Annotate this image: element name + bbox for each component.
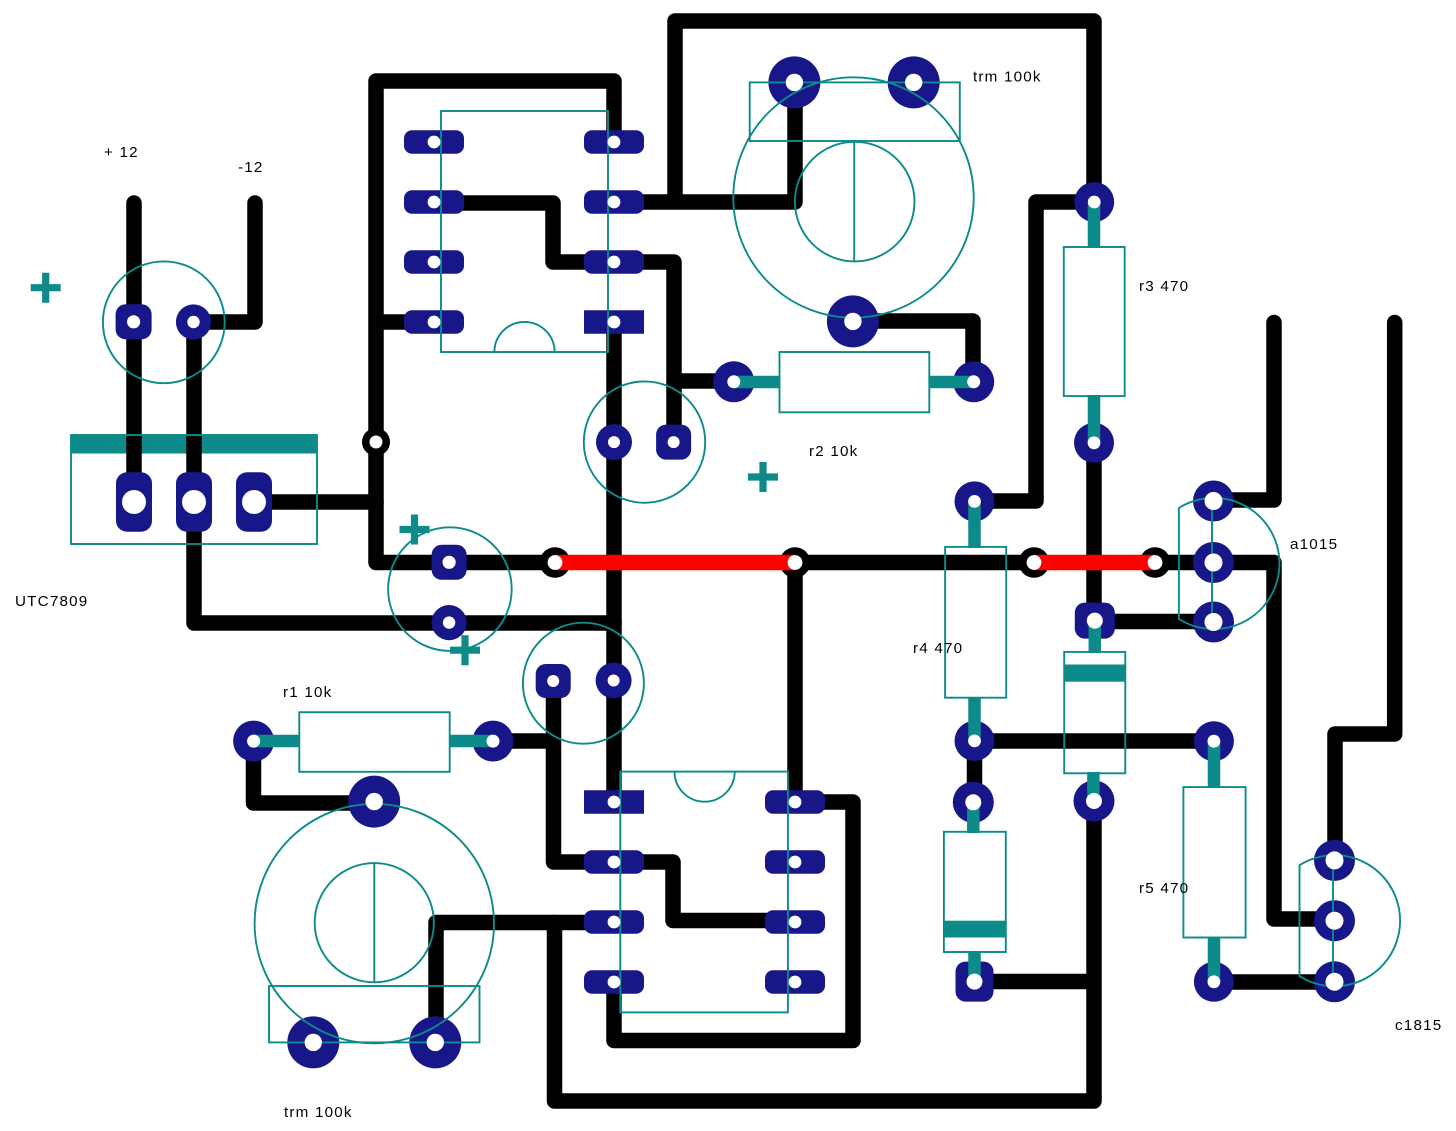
IC U2 pad pin 6 (765, 910, 825, 934)
wire IC U1 pin 7 to trimmer trm1 pad A (614, 82, 795, 202)
voltage regulator U3 UTC7809 tab bar (71, 435, 317, 454)
IC U1 notch arc (494, 322, 554, 352)
wire node A loop IC U1 pin 8 to red junction A (376, 81, 614, 563)
wire +12 terminal to U3 pin1 (126, 203, 142, 502)
IC U1 pad pin 2 (584, 190, 644, 214)
trimmer trm2 body rectangle (269, 986, 480, 1042)
wire cap C1 negative pad to U3 pin2 (186, 322, 202, 502)
pad drill holes (370, 436, 383, 449)
transistor c1815 base pad (1314, 900, 1355, 941)
diode D2 leads (1089, 621, 1102, 653)
voltage regulator U3 pads pins 1 2 3 (116, 472, 152, 532)
wire r3 top pad to r4 top pad (975, 202, 1095, 501)
via junction red segment 1 right (780, 547, 811, 578)
transistor Q2 base pad square (536, 664, 571, 698)
resistor r2 left pad (713, 361, 754, 402)
wire r4 bottom pad to r5 top pad (975, 733, 1215, 749)
IC U2 pad pin 2 (584, 850, 644, 874)
diode D1 anode pad square (956, 962, 994, 1002)
capacitor C2 positive pad (432, 545, 467, 580)
r5 top pad (1194, 721, 1234, 761)
resistor r3 leads (1088, 202, 1101, 248)
trimmer trm1 wiper pad (827, 295, 879, 347)
via junction red segment 2 left (1019, 547, 1050, 578)
diode D2 cathode stripe (1064, 665, 1125, 682)
capacitor C1 plus mark (31, 273, 61, 303)
capacitor C2 outline circle (388, 527, 512, 651)
via junction red segment 2 right (1140, 547, 1171, 578)
wire top right rail to transistor a1015 emitter (1214, 323, 1274, 501)
resistor r5 body outline (1183, 787, 1245, 937)
IC U2 pad pin 1 square pin1 marker (584, 790, 644, 814)
resistor r4 top pad (955, 481, 995, 521)
resistor r4 body outline (945, 547, 1006, 698)
diode D1 leads (967, 802, 980, 833)
wire U3 pin3 to node A (254, 494, 376, 510)
wire U3 pin2 rail to vertical net (194, 502, 614, 623)
wire r1 left pad to trimmer trm2 wiper (254, 741, 375, 803)
trimmer trm1 body rectangle (750, 82, 960, 141)
resistor r5 leads (1208, 741, 1221, 788)
transistor a1015 pin line (1211, 501, 1213, 622)
resistor r3 body outline (1064, 247, 1125, 396)
capacitor C2 plus mark right of r2 (748, 462, 778, 492)
svg-text:r3 470: r3 470 (1139, 278, 1189, 295)
wire trimmer trm2 pad to IC U2 pin 3 (436, 923, 614, 1043)
diode D1 cathode pad (953, 782, 994, 823)
trimmer trm1 pad A (768, 56, 820, 108)
wire r3 bottom pad to diode D2 anode pad (1086, 443, 1102, 621)
wire r4 bottom pad to diode D1 cathode pad (967, 741, 983, 802)
trimmer trm2 body circle (255, 804, 494, 1043)
svg-text:UTC7809: UTC7809 (15, 593, 88, 610)
IC U2 pad pin 4 (584, 970, 644, 994)
diode D2 cathode pad (1074, 781, 1115, 822)
wire IC U1 pin 2 to pin 6 (434, 203, 614, 262)
resistor r2 leads (734, 376, 780, 389)
trimmer trm2 wiper pad (348, 776, 400, 828)
resistor r2 right pad (953, 361, 994, 402)
red trace net A segment 1 (555, 555, 795, 571)
resistor r1 body outline (299, 712, 449, 772)
transistor a1015 collector pad (1193, 602, 1234, 643)
svg-text:trm 100k: trm 100k (973, 69, 1042, 86)
trimmer trm1 body circle (733, 77, 973, 317)
IC U2 pad pin 7 (765, 850, 825, 874)
IC U1 pad pin 3 (584, 250, 644, 274)
wire IC U2 pin 4 to pin 8 loop (614, 802, 853, 1041)
svg-text:r5 470: r5 470 (1139, 880, 1189, 897)
svg-text:-12: -12 (238, 159, 264, 176)
wire branch to resistor r2 left pad (674, 373, 734, 389)
IC U1 pad pin 6 (404, 250, 464, 274)
wire r1 right pad to Q2 emitter net (493, 733, 555, 749)
trimmer trm2 pad left (287, 1016, 339, 1068)
wire IC U1 pin 5 through Q1 and Q2 pads to IC U2 pin 1 (606, 322, 622, 802)
IC U1 pad pin 5 (404, 310, 464, 334)
svg-text:trm 100k: trm 100k (284, 1104, 353, 1121)
IC U2 notch arc (675, 772, 735, 802)
resistor r3 bottom pad (1074, 423, 1114, 463)
IC U2 body outline (620, 772, 788, 1013)
capacitor C2 plus mark top (400, 515, 430, 545)
svg-text:r1 10k: r1 10k (283, 684, 332, 701)
resistor r2 body outline (780, 352, 930, 412)
transistor Q1 outline circle (584, 381, 705, 502)
wire far right rail to transistor c1815 collector (1335, 323, 1395, 861)
transistor c1815 collector pad (1314, 840, 1355, 881)
capacitor C2 negative pad (432, 605, 467, 640)
transistor Q2 emitter pad (596, 663, 632, 699)
wire -12 terminal to cap C1 negative pad (194, 203, 255, 322)
resistor r4 leads (968, 501, 981, 548)
trimmer trm2 rotor circle (315, 863, 434, 982)
resistor r3 top pad (1074, 182, 1114, 222)
IC U2 pad pin 8 (765, 790, 825, 814)
wire diode D2 cathode down and bottom ground rail (555, 801, 1095, 1101)
svg-text:r2 10k: r2 10k (809, 443, 858, 460)
wire Q2 emitter to IC U2 pin 2 and pin 7 (554, 681, 796, 921)
svg-text:+ 12: + 12 (104, 144, 139, 161)
transistor a1015 emitter pad (1193, 481, 1234, 522)
IC U1 pad pin 1 (584, 130, 644, 154)
transistor c1815 body outline (1300, 855, 1401, 986)
transistor c1815 pin line (1332, 860, 1334, 982)
IC U1 pad pin 7 (404, 190, 464, 214)
capacitor C2 plus mark bottom (450, 635, 480, 665)
trimmer trm1 pad B (888, 56, 940, 108)
diode D1 body outline (944, 832, 1006, 952)
resistor r1 leads (254, 735, 300, 748)
trimmer trm2 pad right (409, 1016, 461, 1068)
diode D1 cathode stripe (944, 921, 1006, 938)
wire diode D1 anode pad to ground rail (975, 974, 1095, 990)
wire branch to top loop and r3 top pad (675, 21, 1094, 202)
capacitor C1 positive pad (116, 304, 152, 339)
trimmer trm2 rotor slot line (373, 863, 375, 982)
via junction red segment 1 left (540, 547, 571, 578)
trimmer trm1 rotor slot line (853, 142, 855, 262)
red trace net A segment 2 (1034, 555, 1155, 571)
transistor Q1 emitter pad (596, 424, 632, 460)
wire red junction D to transistor a1015 base and corner down to c1815 base (1155, 563, 1335, 920)
IC U1 pad pin 4 square pin1 marker (584, 310, 644, 334)
svg-text:c1815: c1815 (1395, 1017, 1442, 1034)
wire red junction B to red junction C (795, 555, 1034, 571)
resistor r1 left pad (233, 721, 274, 762)
IC U2 pad pin 3 (584, 910, 644, 934)
trimmer trm1 rotor circle (795, 142, 915, 262)
transistor a1015 base pad (1193, 542, 1234, 583)
capacitor C1 outline circle (103, 261, 225, 383)
diode D2 body outline (1064, 652, 1125, 773)
wire red junction B down to IC U2 pin 8 (787, 563, 803, 803)
transistor c1815 emitter pad (1314, 961, 1355, 1002)
IC U1 pad pin 8 (404, 130, 464, 154)
diode D2 anode pad square (1075, 603, 1115, 639)
IC U1 body outline (441, 111, 608, 352)
voltage regulator U3 UTC7809 body outline (71, 435, 317, 544)
svg-text:a1015: a1015 (1290, 536, 1338, 553)
transistor Q2 outline circle (523, 623, 644, 744)
wire r5 bottom pad to c1815 emitter pad (1214, 974, 1335, 990)
wire a1015 collector to diode D2 anode pad (1095, 614, 1214, 630)
r5 bottom pad (1194, 962, 1234, 1002)
capacitor C1 negative pad (176, 304, 211, 339)
IC U2 pad pin 5 (765, 970, 825, 994)
node A eyelet (362, 428, 390, 456)
transistor Q1 base pad square (656, 425, 691, 460)
wire IC U1 pin 6 to transistor Q1 base pad (614, 262, 674, 442)
wire trimmer trm1 wiper to r2 right pad (853, 321, 973, 382)
wire left rail to IC U1 pin 4 (376, 314, 434, 330)
resistor r1 right pad (473, 721, 514, 762)
transistor a1015 body outline (1179, 498, 1280, 629)
svg-text:r4 470: r4 470 (913, 640, 963, 657)
resistor r4 bottom pad (955, 721, 995, 761)
